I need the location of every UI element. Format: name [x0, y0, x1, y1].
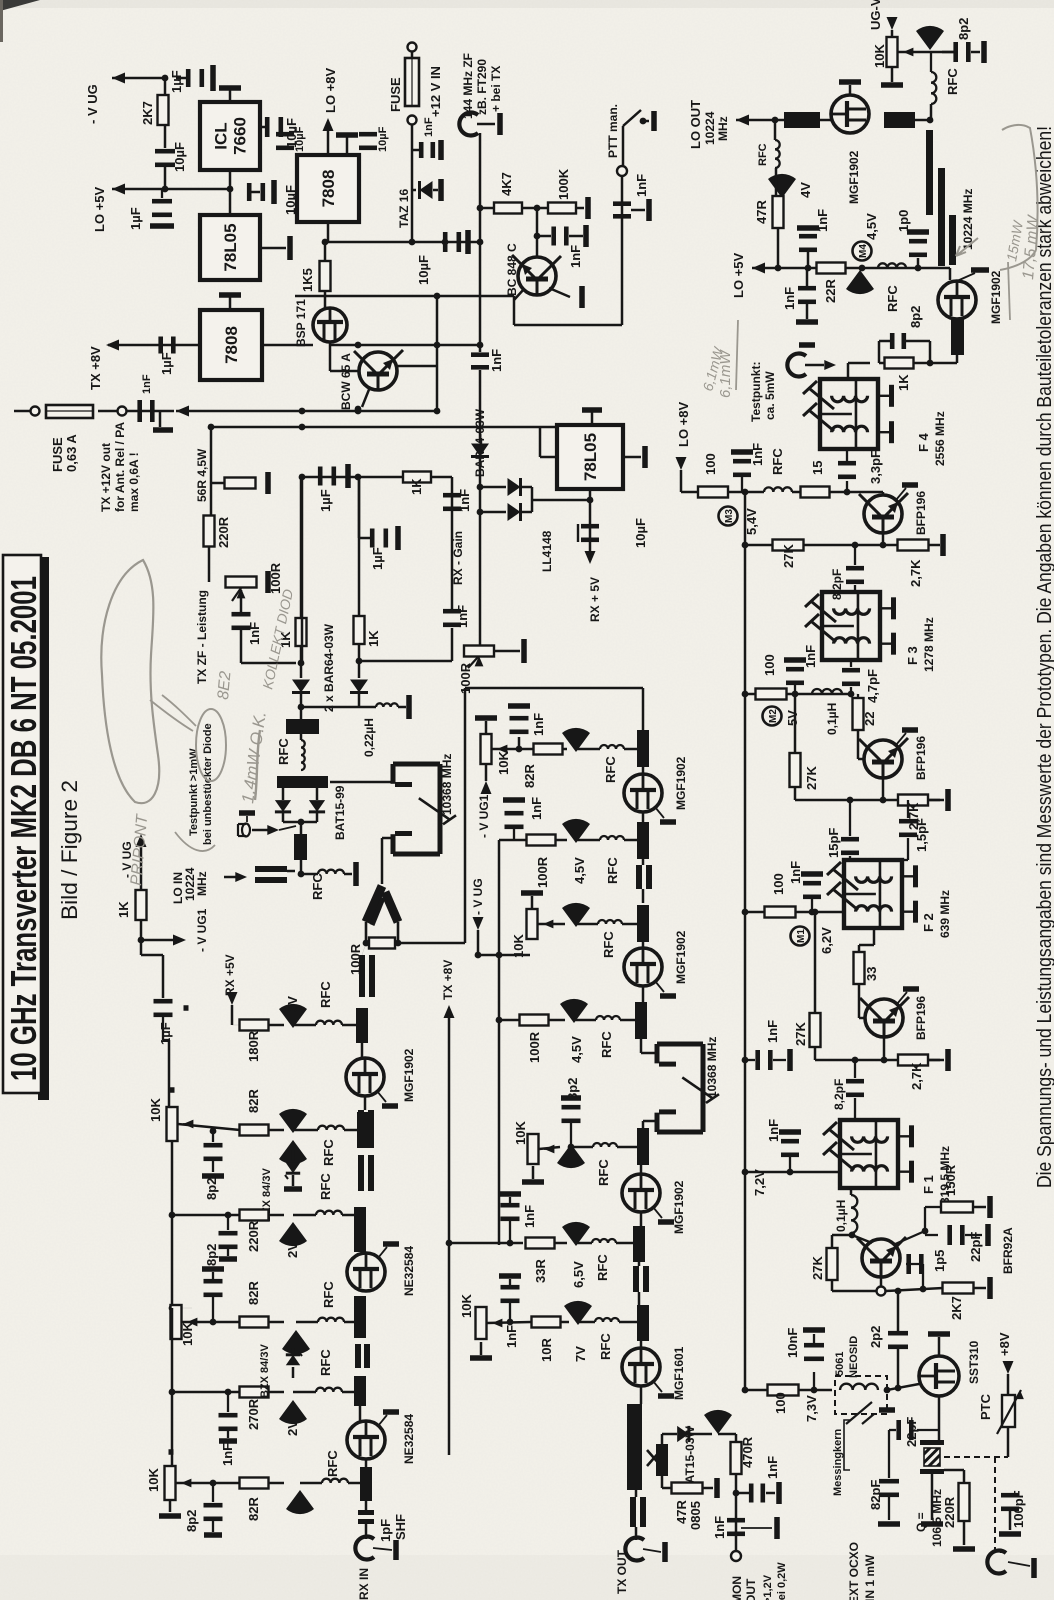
- wire: [849, 800, 851, 836]
- wire: [169, 1107, 172, 1109]
- wire: [905, 340, 930, 343]
- svg-text:1nF: 1nF: [455, 605, 470, 628]
- svg-text:10224 MHz: 10224 MHz: [961, 189, 975, 250]
- svg-text:56R 4,5W: 56R 4,5W: [195, 448, 209, 502]
- capacitor 8p2 rx2: [204, 1143, 223, 1148]
- wire: [851, 693, 858, 695]
- capacitor 1nF c7: [501, 1285, 520, 1290]
- wire: [1008, 1562, 1030, 1566]
- wire: [897, 992, 907, 1004]
- potentiometer 10K c7: [476, 1307, 487, 1339]
- resistor 27K osc: [827, 1248, 838, 1280]
- svg-text:10 GHz Transverter MK2 DB 6: 10 GHz Transverter MK2 DB 6 NT 05.2001: [3, 576, 44, 1081]
- svg-text:1nF: 1nF: [141, 374, 153, 394]
- IC 78L05 U2: [200, 215, 260, 280]
- wire: [342, 1024, 356, 1027]
- wire: [494, 650, 520, 653]
- wire loop left: [464, 688, 467, 943]
- wire: [846, 481, 848, 492]
- junction: [852, 542, 859, 549]
- transistor MGF1902 RX Q15: [346, 1058, 384, 1096]
- wire: [227, 1431, 229, 1438]
- wire: [849, 85, 852, 95]
- junction: [742, 1057, 749, 1064]
- svg-text:RX + 5V: RX + 5V: [588, 577, 602, 622]
- svg-text:RX - Gain: RX - Gain: [451, 531, 465, 585]
- trimmer wedge det: [704, 1410, 732, 1434]
- ground bar above connector: [239, 810, 255, 816]
- arrow UG-V: [887, 17, 898, 30]
- svg-text:RFC: RFC: [321, 1281, 336, 1308]
- arrow into mixer: [267, 825, 279, 835]
- wire: [112, 77, 165, 80]
- X mark: [647, 1450, 661, 1466]
- wire: [915, 119, 928, 122]
- svg-text:NE32584: NE32584: [402, 1414, 416, 1464]
- junction: [905, 797, 912, 804]
- ground above ICL7660: [219, 85, 241, 91]
- wire: [616, 1242, 633, 1245]
- svg-text:3V: 3V: [285, 996, 300, 1012]
- svg-text:6,2V: 6,2V: [819, 927, 834, 954]
- node circle osc: [877, 1287, 886, 1296]
- inductor RFC rx3: [318, 1318, 344, 1322]
- svg-text:22R: 22R: [823, 279, 838, 303]
- microstrip line Q4 drain: [884, 112, 915, 128]
- wire: [640, 1341, 643, 1348]
- wire: [638, 1292, 641, 1305]
- svg-text:ca. 5mW: ca. 5mW: [763, 371, 777, 420]
- wire: [623, 456, 641, 459]
- wire: [478, 954, 530, 957]
- resistor 1K: [296, 618, 307, 646]
- junction: [356, 658, 363, 665]
- trimmer wedge 4V: [768, 174, 796, 198]
- wire: [492, 1322, 499, 1324]
- wire loop right: [642, 688, 645, 732]
- wire: [924, 1207, 926, 1231]
- potentiometer 100R RX gain: [464, 646, 494, 657]
- inductor RFC: [775, 140, 780, 168]
- svg-text:BZX 84/3V: BZX 84/3V: [259, 1344, 271, 1398]
- svg-text:OUT: OUT: [744, 1578, 758, 1600]
- wire: [348, 1482, 360, 1485]
- wire: [879, 362, 884, 365]
- wire: [880, 1277, 883, 1287]
- wire: [240, 590, 243, 612]
- wire: [916, 51, 954, 54]
- junction: [922, 1228, 929, 1235]
- wire: [377, 1091, 386, 1102]
- wire: [492, 748, 533, 751]
- microstrip line LO OUT: [784, 112, 820, 128]
- wire: [433, 189, 438, 192]
- connector 144MHz input: [459, 113, 478, 136]
- svg-text:RFC: RFC: [770, 448, 785, 475]
- wire: [619, 1321, 637, 1324]
- resistor 10R: [532, 1317, 561, 1328]
- wire emitter row F1: [815, 1059, 940, 1062]
- wire: [361, 1043, 364, 1058]
- wire: [172, 1214, 240, 1217]
- svg-text:10R: 10R: [539, 1338, 554, 1362]
- transistor BFP196 Q7: [859, 738, 908, 778]
- svg-text:1µF: 1µF: [370, 547, 385, 570]
- svg-text:BFP196: BFP196: [914, 736, 928, 780]
- resistor 82R rx: [240, 1125, 269, 1136]
- svg-text:MGF1902: MGF1902: [847, 150, 861, 204]
- svg-text:F 4: F 4: [916, 432, 931, 452]
- junction: [742, 542, 749, 549]
- capacitor 1uF rx: [154, 999, 173, 1004]
- svg-text:1,5pF: 1,5pF: [914, 818, 929, 852]
- wire: [521, 511, 532, 514]
- wire: [642, 942, 645, 948]
- wire: [227, 1215, 229, 1230]
- wire: [300, 822, 303, 834]
- wire: [777, 228, 780, 268]
- ground: [353, 862, 359, 886]
- svg-text:RFC: RFC: [599, 1031, 614, 1058]
- wire: [766, 1492, 775, 1495]
- wire: [164, 125, 167, 148]
- junction: [742, 1387, 749, 1394]
- wire: [1007, 1361, 1009, 1362]
- wire: [140, 940, 143, 955]
- wire: [176, 1482, 240, 1485]
- series strips rx4: [355, 1344, 361, 1368]
- crystal Q 106,5MHz: [920, 1440, 944, 1445]
- microstrip line rx4: [354, 1376, 366, 1406]
- svg-text:27K: 27K: [804, 766, 819, 790]
- svg-text:BFP196: BFP196: [914, 996, 928, 1040]
- svg-text:8p2: 8p2: [204, 1244, 219, 1266]
- capacitor 10uF right of 7808: [359, 132, 377, 137]
- inductor RFC LO IN: [318, 870, 344, 874]
- wire rail x480: [479, 242, 482, 345]
- wire: [1007, 1427, 1010, 1457]
- wire: [361, 1252, 363, 1253]
- wire: [162, 1017, 164, 1040]
- resistor 220R rx: [240, 1210, 269, 1221]
- svg-text:10K: 10K: [872, 44, 887, 68]
- wire: [814, 912, 817, 1013]
- wire: [269, 1024, 284, 1027]
- series cap 1pF SHF: [358, 1510, 374, 1515]
- wire: [570, 1123, 572, 1147]
- junction: [298, 819, 305, 826]
- svg-text:2 x BAR64-03W: 2 x BAR64-03W: [322, 623, 336, 712]
- wire rail from connector: [479, 133, 482, 242]
- svg-text:M1: M1: [796, 929, 807, 943]
- svg-text:TX +8V: TX +8V: [88, 346, 103, 390]
- wire: [907, 838, 909, 860]
- wire rail: [301, 477, 304, 663]
- junction: [881, 1057, 888, 1064]
- wire: [499, 1019, 519, 1022]
- svg-text:RFC: RFC: [885, 285, 900, 312]
- svg-text:1nF: 1nF: [766, 1119, 781, 1142]
- wire: [342, 1214, 354, 1217]
- svg-text:10368 MHz: 10368 MHz: [705, 1037, 719, 1098]
- svg-text:7V: 7V: [573, 1346, 588, 1362]
- resistor 82R: [534, 744, 563, 755]
- capacitor 1nF: [232, 612, 251, 617]
- svg-text:22: 22: [862, 712, 877, 726]
- wire: [162, 95, 164, 96]
- wire: [358, 477, 361, 538]
- measure point M4: [853, 242, 872, 261]
- wire: [240, 630, 243, 663]
- terminal: [31, 407, 40, 416]
- wire: [655, 981, 664, 992]
- junction: [322, 239, 329, 246]
- wire: [300, 693, 303, 719]
- microstrip line c5: [637, 1128, 649, 1165]
- svg-text:33: 33: [864, 967, 879, 981]
- connector RX IN: [355, 1537, 374, 1560]
- inductor 0,1uH osc: [851, 1195, 857, 1233]
- junction: [640, 118, 647, 125]
- wire: [811, 899, 813, 912]
- wire: [578, 1321, 595, 1324]
- wire: [14, 410, 30, 413]
- ground below 10K pot c7: [470, 1355, 492, 1361]
- ground: [662, 1542, 668, 1562]
- title box: [3, 555, 41, 1093]
- junction: [587, 497, 594, 504]
- svg-text:RFC: RFC: [601, 931, 616, 958]
- junction: [355, 342, 362, 349]
- ground: [393, 1540, 399, 1560]
- svg-text:5V: 5V: [785, 710, 800, 726]
- junction: [363, 940, 370, 947]
- capacitor 2p2: [888, 1331, 908, 1336]
- resistor 2,7K F2: [898, 795, 928, 806]
- arrow -V UG: [112, 73, 125, 84]
- wire: [589, 489, 592, 558]
- wire: [949, 268, 952, 280]
- wire: [513, 296, 516, 325]
- junction: [516, 746, 523, 753]
- wire: [882, 778, 885, 800]
- resistor 47R: [773, 196, 784, 228]
- resistor 1K5: [320, 261, 331, 291]
- wire: [854, 1060, 856, 1078]
- resistor 100K: [548, 203, 576, 214]
- svg-text:144 MHz ZF: 144 MHz ZF: [461, 53, 475, 119]
- wire rail rx1: [168, 1040, 171, 1108]
- microstrip line rx3b: [354, 1207, 366, 1252]
- wire: [847, 363, 850, 379]
- wire emitter: [549, 288, 570, 297]
- wire: [903, 51, 910, 53]
- wire: [635, 1490, 638, 1497]
- svg-text:100: 100: [703, 453, 718, 475]
- wire: [536, 208, 539, 257]
- resistor 100R c3: [527, 835, 556, 846]
- junction: [568, 1144, 575, 1151]
- wire: [914, 362, 930, 365]
- wire: [269, 1129, 284, 1132]
- wire: [643, 1120, 657, 1123]
- wire: [140, 840, 143, 890]
- wire: [886, 1288, 943, 1291]
- wire: [300, 477, 303, 617]
- capacitor 100pF: [1001, 1493, 1019, 1498]
- wire: [963, 1470, 966, 1483]
- wire: [620, 1019, 635, 1022]
- svg-text:100pF: 100pF: [1011, 1490, 1026, 1528]
- svg-text:5,4V: 5,4V: [744, 508, 759, 535]
- wire: [857, 694, 859, 698]
- inductor RFC: [878, 263, 906, 268]
- potentiometer 10K rx5: [165, 1466, 176, 1500]
- microstrip line rx2: [357, 1112, 369, 1148]
- wire: [906, 1263, 923, 1265]
- wire row F1 in: [745, 1171, 840, 1174]
- terminal fuse bottom: [408, 116, 417, 125]
- wire row M2: [745, 693, 851, 696]
- capacitor 10uF rail: [155, 149, 175, 154]
- svg-text:UG-V: UG-V: [868, 0, 883, 30]
- wire: [832, 1290, 877, 1293]
- arrow -V UG1 rx: [173, 935, 186, 946]
- ground stub 1uF: [184, 1005, 189, 1011]
- svg-text:10368 MHz: 10368 MHz: [440, 754, 454, 815]
- capacitor 2p2 gnd stub: [879, 1407, 895, 1413]
- terminal: [118, 407, 127, 416]
- svg-text:RFC: RFC: [310, 873, 325, 900]
- series coupling strips TX out: [630, 1497, 636, 1527]
- wire: [479, 457, 482, 645]
- wire: [477, 123, 495, 126]
- svg-text:220R: 220R: [216, 516, 231, 548]
- wire: [974, 1287, 986, 1290]
- resistor 4K7: [494, 203, 522, 214]
- svg-text:10µF: 10µF: [172, 142, 187, 172]
- ground: [945, 789, 951, 811]
- junction: [792, 691, 799, 698]
- trimmer wedge UG-V: [916, 26, 944, 50]
- wire: [176, 77, 186, 80]
- arrow LO+8V: [676, 457, 687, 470]
- svg-text:- V UG: - V UG: [471, 878, 485, 915]
- wire: [178, 1124, 240, 1130]
- wire: [162, 955, 165, 998]
- svg-text:1K: 1K: [366, 630, 381, 647]
- svg-text:8,2pF: 8,2pF: [830, 569, 844, 600]
- svg-text:100R: 100R: [527, 1031, 542, 1063]
- arrow +8V down: [1003, 1361, 1014, 1374]
- svg-text:8p2: 8p2: [184, 1510, 199, 1532]
- wire: [538, 923, 565, 926]
- connector EXT OCXO: [987, 1551, 1006, 1574]
- coupling strips to RX amp: [359, 955, 365, 997]
- svg-text:bei 0,2W: bei 0,2W: [776, 1562, 788, 1600]
- wire: [735, 1434, 738, 1442]
- capacitor 10uF left of 7808: [276, 132, 294, 137]
- junction: [859, 265, 866, 272]
- wire: [365, 1501, 368, 1510]
- pot arrow rx2: [183, 1120, 193, 1129]
- ground: [921, 1521, 943, 1527]
- svg-text:2p2: 2p2: [868, 1326, 883, 1348]
- arrow TX +12V out: [176, 406, 189, 417]
- resistor 100 M1: [765, 907, 796, 918]
- junction: [477, 342, 484, 349]
- svg-text:100: 100: [773, 1392, 788, 1414]
- junction: [811, 1387, 818, 1394]
- svg-text:1µF: 1µF: [128, 207, 143, 230]
- wire: [703, 1487, 713, 1490]
- svg-text:6,5V: 6,5V: [571, 1261, 586, 1288]
- wire: [436, 296, 439, 366]
- svg-text:1nF: 1nF: [765, 1456, 780, 1479]
- svg-text:8p2: 8p2: [956, 18, 971, 40]
- wire: [292, 1348, 295, 1354]
- resistor 470R: [731, 1442, 742, 1474]
- junction: [812, 909, 819, 916]
- wire: [182, 1321, 240, 1324]
- wire: [888, 1430, 890, 1442]
- ground: [521, 639, 527, 663]
- arrow LO OUT: [736, 115, 749, 126]
- arrow LO +8V: [323, 118, 334, 131]
- wire F1 out: [850, 1188, 853, 1195]
- wire: [292, 1367, 295, 1378]
- wire collector to node: [397, 365, 437, 368]
- wire: [642, 1121, 645, 1128]
- svg-text:100K: 100K: [556, 168, 571, 200]
- junction: [208, 424, 215, 431]
- wire: [358, 477, 361, 615]
- wire: [260, 344, 262, 346]
- wire: [480, 486, 506, 489]
- wire: [282, 788, 285, 800]
- series strips rx mid2: [358, 1155, 364, 1191]
- svg-text:7,3V: 7,3V: [804, 1395, 819, 1422]
- potentiometer 100R TX ZF: [226, 577, 257, 588]
- svg-text:78L05: 78L05: [221, 223, 240, 271]
- wire: [820, 119, 832, 122]
- junction: [225, 1212, 232, 1219]
- ground above 10K pot c1: [475, 715, 497, 721]
- wire ICL7660 to 78L05: [229, 170, 232, 215]
- microstrip line below mixer: [294, 834, 307, 860]
- svg-text:4V: 4V: [798, 182, 813, 198]
- resistor 82R rx5: [240, 1478, 269, 1489]
- svg-text:SST310: SST310: [967, 1340, 981, 1384]
- wire: [690, 1433, 712, 1436]
- wire: [359, 660, 452, 663]
- wire: [232, 1024, 240, 1026]
- arrow TX+8V: [444, 1005, 455, 1018]
- wire bus y427: [211, 426, 560, 429]
- microstrip line TX output: [627, 1404, 642, 1490]
- svg-text:RFC: RFC: [276, 738, 291, 765]
- wire: [857, 742, 860, 759]
- svg-text:2,7K: 2,7K: [909, 1062, 924, 1090]
- inductor NEOSID 5061 with dashed shield: [835, 1376, 887, 1414]
- wire: [643, 120, 649, 123]
- wire: [741, 477, 743, 492]
- capacitor 10uF RX5V: [581, 524, 599, 529]
- svg-text:SHF: SHF: [393, 1514, 408, 1540]
- wire: [302, 476, 403, 479]
- wire: [514, 324, 622, 327]
- pencil blob left: [101, 560, 159, 803]
